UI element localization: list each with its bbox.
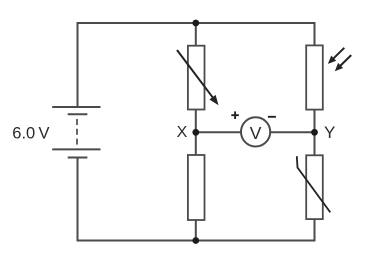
voltmeter body — [241, 117, 270, 146]
wire top horizontal — [77, 22, 316, 24]
wire right branch between LDR and node Y — [314, 110, 316, 134]
wire middle branch top — [195, 22, 197, 47]
wire middle branch between resistor and node X — [195, 109, 197, 133]
wire middle branch bottom — [195, 219, 197, 241]
svg-text:Y: Y — [324, 123, 335, 142]
voltmeter plus sign — [231, 111, 239, 119]
voltmeter minus sign — [268, 116, 276, 118]
wire right branch top — [314, 22, 316, 46]
wire left upper vertical — [77, 22, 79, 107]
variable resistor arrow — [177, 50, 219, 105]
wire right branch between node Y and thermistor — [314, 132, 316, 156]
LDR body (upper right) — [306, 45, 323, 109]
fixed resistor body (lower middle) — [188, 155, 205, 220]
node X junction dot — [192, 129, 199, 136]
thermistor body (lower right) — [306, 155, 323, 219]
svg-text:V: V — [250, 123, 262, 143]
node Y junction dot — [311, 129, 318, 136]
svg-text:X: X — [177, 124, 188, 141]
wire middle branch between node X and lower resistor — [195, 132, 197, 156]
wire right branch bottom — [314, 219, 316, 241]
wire bottom horizontal — [77, 240, 316, 242]
LDR light arrow 1 — [328, 48, 344, 64]
top junction dot — [192, 20, 199, 27]
wire left lower vertical — [77, 158, 79, 242]
battery B1 (6.0V cells) — [52, 107, 100, 158]
wire voltmeter to node Y — [269, 131, 315, 133]
thermistor diagonal line — [297, 156, 331, 212]
variable resistor body (upper middle) — [188, 46, 205, 110]
bottom junction dot — [192, 237, 199, 244]
LDR light arrow 2 — [335, 55, 351, 71]
wire node X to voltmeter — [196, 131, 242, 133]
svg-text:6.0 V: 6.0 V — [12, 125, 49, 143]
